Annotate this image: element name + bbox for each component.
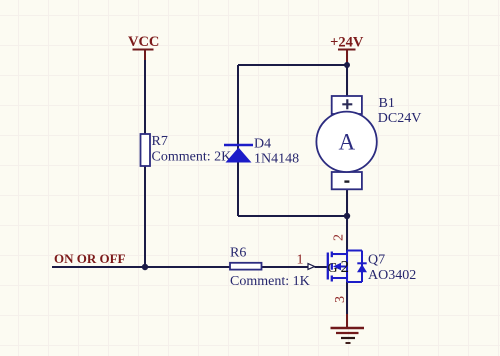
svg-text:ON OR OFF: ON OR OFF <box>54 251 126 266</box>
svg-text:Q7: Q7 <box>368 253 385 268</box>
svg-text:B1: B1 <box>379 96 395 111</box>
svg-text:G: G <box>328 261 338 276</box>
svg-text:1N4148: 1N4148 <box>254 152 299 167</box>
svg-text:R6: R6 <box>230 246 246 261</box>
svg-text:A: A <box>338 130 355 155</box>
svg-text:2: 2 <box>341 257 350 276</box>
svg-text:1: 1 <box>297 253 304 268</box>
svg-text:AO3402: AO3402 <box>368 268 416 283</box>
svg-text:VCC: VCC <box>128 34 159 50</box>
svg-text:R7: R7 <box>152 134 168 149</box>
svg-text:DC24V: DC24V <box>378 111 422 126</box>
svg-text:D4: D4 <box>254 137 271 152</box>
svg-text:3: 3 <box>333 296 348 303</box>
svg-text:+24V: +24V <box>330 35 364 51</box>
svg-text:Comment: 1K: Comment: 1K <box>230 274 310 289</box>
svg-text:2: 2 <box>332 234 347 241</box>
svg-text:Comment: 2K: Comment: 2K <box>152 150 232 165</box>
